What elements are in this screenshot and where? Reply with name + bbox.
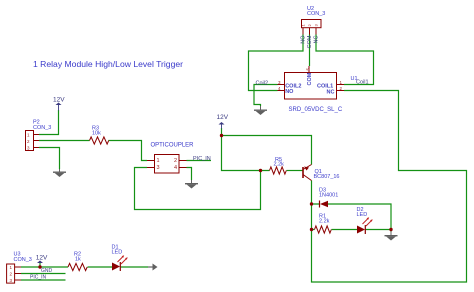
svg-text:1 Relay Module High/Low Level: 1 Relay Module High/Low Level Trigger	[33, 59, 183, 69]
svg-text:Coil2: Coil2	[256, 81, 269, 87]
svg-text:PIC_IN: PIC_IN	[30, 275, 47, 281]
svg-text:3: 3	[157, 165, 160, 171]
svg-text:2.2k: 2.2k	[274, 162, 285, 168]
svg-text:1N4001: 1N4001	[319, 193, 338, 199]
svg-text:CON_3: CON_3	[307, 11, 325, 17]
svg-text:OPTICOUPLER: OPTICOUPLER	[151, 142, 195, 148]
svg-text:4: 4	[174, 165, 177, 171]
svg-text:LED: LED	[357, 212, 368, 218]
svg-text:GND: GND	[41, 268, 53, 274]
svg-text:12V: 12V	[36, 254, 48, 261]
svg-text:10k: 10k	[92, 130, 101, 136]
svg-text:NC: NC	[314, 35, 320, 43]
svg-text:BC807_16: BC807_16	[314, 174, 340, 180]
svg-text:PIC_IN: PIC_IN	[193, 156, 211, 162]
svg-text:1: 1	[157, 158, 160, 164]
svg-text:LED: LED	[112, 250, 123, 256]
svg-text:NO: NO	[301, 35, 307, 44]
svg-text:COM: COM	[307, 72, 313, 85]
svg-text:CON_3: CON_3	[14, 257, 32, 263]
svg-text:NO: NO	[285, 89, 294, 95]
svg-text:NC: NC	[327, 89, 335, 95]
svg-text:12V: 12V	[53, 97, 65, 104]
svg-text:SRD_05VDC_SL_C: SRD_05VDC_SL_C	[289, 107, 343, 113]
svg-text:12V: 12V	[217, 114, 229, 121]
svg-text:1k: 1k	[75, 257, 81, 263]
svg-text:COM: COM	[307, 35, 313, 48]
svg-text:2.2k: 2.2k	[319, 219, 330, 225]
svg-text:CON_3: CON_3	[33, 125, 51, 131]
svg-text:Coil1: Coil1	[356, 80, 369, 86]
svg-text:2: 2	[174, 158, 177, 164]
